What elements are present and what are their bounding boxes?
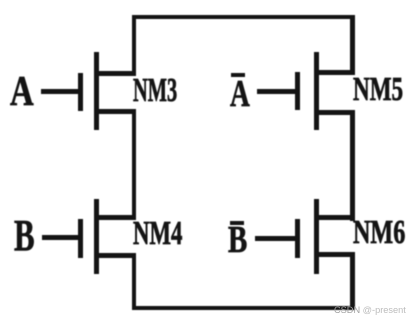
transistor NM6: channel bar: [314, 199, 319, 274]
transistor NM6: reference designator label: [353, 216, 405, 250]
transistor NM4: source stub: [96, 253, 136, 258]
wire: NM5 drain segment (right vertical, top rail to NM5 drain stub): [350, 15, 355, 75]
transistor NM4: channel bar: [94, 199, 99, 274]
transistor NM5: channel bar: [314, 52, 319, 130]
node B-bar: overbar: [230, 221, 244, 225]
wire: right mid segment (NM5 source to NM6 drain): [350, 110, 355, 221]
transistor NM4: drain stub: [96, 215, 136, 220]
wire: NM6 source segment (right vertical, NM6 source stub to bottom rail): [350, 252, 355, 310]
transistor NM5: source stub: [316, 110, 355, 115]
node A: input label: [10, 71, 34, 113]
transistor NM4: gate bar: [78, 219, 83, 258]
wire: gate lead of NM3 from node A: [41, 89, 80, 94]
transistor NM5: gate bar: [295, 72, 300, 110]
transistor NM6: drain stub: [316, 215, 355, 220]
wire: top rail (drains of NM3 and NM5): [132, 15, 355, 19]
transistor NM3: reference designator label: [133, 74, 177, 108]
node B: input label: [14, 214, 35, 258]
transistor NM4: reference designator label: [133, 217, 182, 251]
transistor NM5: reference designator label: [353, 73, 403, 107]
transistor NM3: drain stub: [96, 71, 136, 76]
transistor NM3: gate bar: [78, 73, 83, 111]
wire: bottom rail (sources of NM4 and NM6): [132, 306, 355, 310]
wire: gate lead of NM4 from node B: [42, 235, 79, 240]
transistor NM6: gate bar: [295, 219, 300, 258]
node A-bar: input label letter: [230, 75, 250, 113]
transistor NM6: source stub: [316, 252, 355, 257]
transistor NM5: drain stub: [316, 70, 355, 75]
node B-bar: input label letter: [228, 221, 247, 259]
node A-bar: overbar: [231, 73, 245, 77]
wire: gate lead of NM5 from node A-bar: [257, 89, 297, 94]
watermark: [334, 305, 406, 316]
wire: NM4 source segment (left vertical, NM4 source stub to bottom rail): [132, 253, 136, 310]
transistor NM3: source stub: [96, 109, 136, 114]
wire: left mid segment (NM3 source to NM4 drain): [132, 109, 136, 221]
wire: NM3 drain segment (left vertical, top rail to NM3 drain stub): [132, 15, 136, 76]
wire: gate lead of NM6 from node B-bar: [255, 236, 296, 241]
transistor NM3: channel bar: [94, 52, 99, 130]
